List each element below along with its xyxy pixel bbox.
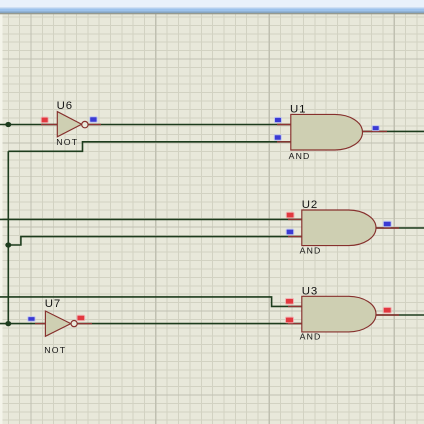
pin stub U6 input <box>41 124 57 126</box>
logic state blue square U6 output <box>89 116 97 123</box>
pin stub U3 output <box>376 314 399 316</box>
wire vertical bus left <box>7 151 9 323</box>
pin stub U7 input <box>35 323 46 325</box>
svg-text:U6: U6 <box>57 100 73 112</box>
wire U6 output to U1 input 1 <box>88 124 291 126</box>
svg-text:AND: AND <box>289 151 311 161</box>
wire U2 output <box>376 227 424 229</box>
and-gate U1 <box>291 114 363 150</box>
blue window strip <box>0 9 424 13</box>
pin stub U7 output <box>78 323 93 325</box>
pin stubs U1 inputs <box>277 125 291 142</box>
pin stubs U3 inputs <box>288 306 302 323</box>
and-gate U2 <box>302 210 376 246</box>
major grid horizontal lines <box>0 59 424 395</box>
pin stub U2 output <box>376 227 399 229</box>
logic state red square U3 output <box>383 307 392 314</box>
wire net to U3 input 1 with step <box>0 297 302 307</box>
inverter U6 <box>57 112 88 137</box>
wire U7 output to U3 input 2 <box>78 323 303 325</box>
and-gate U3 <box>302 296 376 332</box>
pin stub U6 output <box>88 124 101 126</box>
wire net A horizontal into U6 <box>0 124 57 126</box>
node dot net B <box>5 321 11 326</box>
wire net B into U7 <box>0 323 46 325</box>
logic state blue square U7 input <box>27 316 35 322</box>
wire branch to U2 input 2 <box>8 237 302 245</box>
wire net to U2 input 1 <box>0 218 302 220</box>
wire L-shape to U1 input 2 <box>8 142 291 152</box>
logic state red square U3 input 1 <box>285 298 294 305</box>
svg-text:AND: AND <box>300 331 322 341</box>
svg-text:NOT: NOT <box>44 345 66 355</box>
wire U1 output <box>363 130 424 132</box>
logic state blue square U1 input 2 <box>274 134 282 141</box>
logic state red square U2 input 1 <box>286 212 295 219</box>
pin stubs U2 inputs <box>288 219 302 236</box>
logic state blue square U1 output <box>372 125 380 131</box>
inverter U7 <box>45 311 77 336</box>
svg-text:U3: U3 <box>302 285 318 297</box>
node dot on net A <box>5 122 11 127</box>
logic state blue square U1 input 1 <box>274 117 282 123</box>
svg-text:U2: U2 <box>302 199 318 211</box>
svg-text:U7: U7 <box>45 298 61 310</box>
node dot mid bus <box>5 242 11 247</box>
svg-text:U1: U1 <box>290 104 306 116</box>
wire U3 output <box>376 314 424 316</box>
logic state blue square U2 input 2 <box>286 229 295 236</box>
svg-text:AND: AND <box>300 245 322 255</box>
logic state red square U3 input 2 <box>285 317 294 324</box>
left sheet margin strip <box>0 14 3 424</box>
toolbar area top <box>0 0 424 9</box>
pin stub U1 output <box>363 130 388 132</box>
logic state red square U6 input <box>41 117 49 124</box>
logic state red square U7 output <box>77 315 86 321</box>
logic state blue square U2 output <box>383 221 392 228</box>
svg-text:NOT: NOT <box>56 137 78 147</box>
workspace top border <box>0 13 424 14</box>
